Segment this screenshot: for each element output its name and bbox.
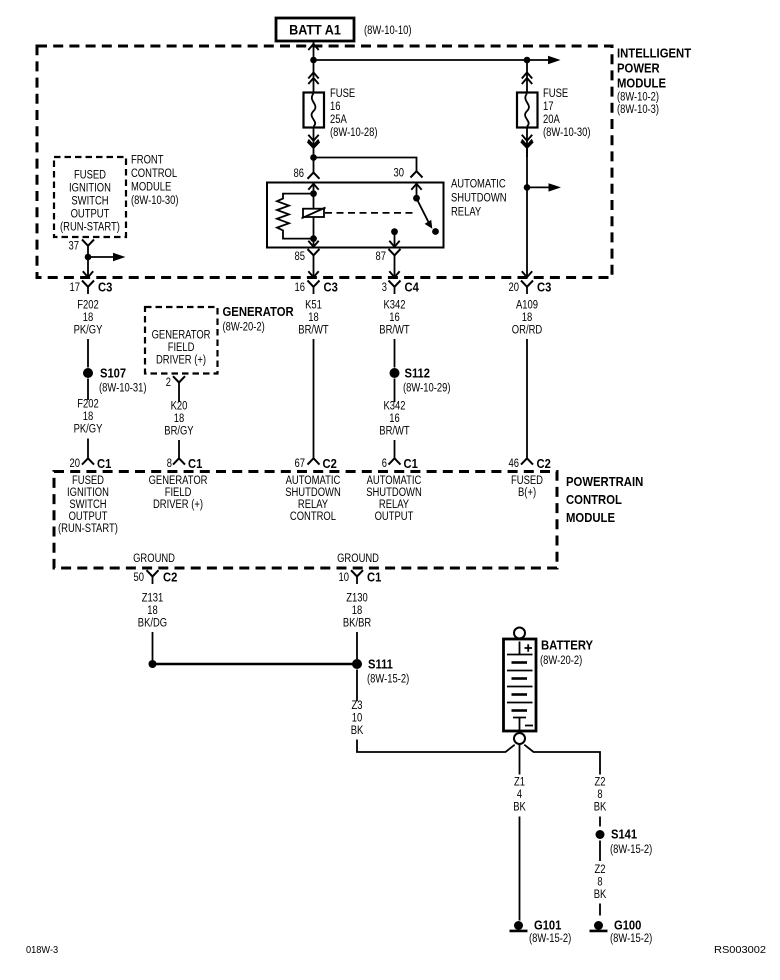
svg-text:20A: 20A xyxy=(543,114,560,126)
wire pin 37 down xyxy=(83,257,93,277)
ground G100 xyxy=(590,918,653,946)
battery feed BATT A1 box xyxy=(276,18,354,41)
connector C1 pin 20 xyxy=(70,451,112,471)
generator pin 2 xyxy=(166,376,185,402)
svg-text:17: 17 xyxy=(543,101,554,113)
wire label F202 lower xyxy=(74,399,103,436)
svg-text:BATT A1: BATT A1 xyxy=(289,22,341,38)
svg-text:86: 86 xyxy=(294,168,305,180)
svg-text:8: 8 xyxy=(597,789,602,801)
svg-text:18: 18 xyxy=(352,605,363,617)
svg-text:Z2: Z2 xyxy=(595,777,606,789)
svg-text:F202: F202 xyxy=(77,300,99,312)
wire Z2 to S141 xyxy=(599,817,601,827)
wire Z3 to battery xyxy=(357,740,515,753)
svg-text:4: 4 xyxy=(517,789,523,801)
pcm label fused b+ xyxy=(511,475,543,499)
wire battery negative to Z1 Z2 xyxy=(520,744,601,775)
svg-text:C1: C1 xyxy=(367,570,381,585)
svg-text:RS003002: RS003002 xyxy=(714,944,766,956)
svg-text:(8W-10-30): (8W-10-30) xyxy=(131,195,179,207)
svg-text:PK/GY: PK/GY xyxy=(74,325,103,337)
wire label K342 lower xyxy=(379,401,409,438)
wire Z2 to G100 xyxy=(599,904,601,916)
svg-text:SHUTDOWN: SHUTDOWN xyxy=(285,487,341,499)
svg-text:SHUTDOWN: SHUTDOWN xyxy=(451,193,507,205)
svg-text:85: 85 xyxy=(295,251,306,263)
fuse F17 xyxy=(517,60,538,128)
battery BT1 xyxy=(504,628,537,745)
pcm label generator field driver xyxy=(149,475,208,511)
svg-text:C2: C2 xyxy=(163,570,177,585)
svg-text:GENERATOR: GENERATOR xyxy=(152,330,211,342)
connector C2 pin 67 xyxy=(295,451,337,471)
svg-text:67: 67 xyxy=(295,458,306,470)
svg-text:S141: S141 xyxy=(611,827,637,842)
connector C3 pin 16 xyxy=(295,280,338,295)
svg-text:CONTROL: CONTROL xyxy=(131,168,178,180)
relay pin 87 contact xyxy=(389,228,399,247)
svg-text:CONTROL: CONTROL xyxy=(290,511,337,523)
wire BATT A1 to node A1 xyxy=(308,42,318,61)
relay pin 85 xyxy=(295,239,320,278)
svg-text:GENERATOR: GENERATOR xyxy=(149,475,208,487)
intelligent power module title xyxy=(617,46,691,117)
connector C1 pin 10 xyxy=(339,570,382,585)
front control module box xyxy=(54,157,126,237)
splice S107 xyxy=(83,366,147,395)
svg-text:BK: BK xyxy=(594,889,607,901)
relay coil feed xyxy=(310,184,317,242)
svg-text:G100: G100 xyxy=(614,918,641,933)
svg-text:BK: BK xyxy=(351,725,364,737)
svg-text:C1: C1 xyxy=(188,456,202,471)
wire label Z130 xyxy=(343,593,371,630)
front control module inner label xyxy=(60,170,120,234)
svg-text:AUTOMATIC: AUTOMATIC xyxy=(451,179,506,191)
svg-text:16: 16 xyxy=(389,312,400,324)
svg-text:10: 10 xyxy=(352,713,363,725)
svg-text:37: 37 xyxy=(69,241,80,253)
svg-text:Z3: Z3 xyxy=(352,700,363,712)
connector C3 pin 20 xyxy=(509,280,552,295)
relay switch xyxy=(413,184,439,235)
svg-text:OUTPUT: OUTPUT xyxy=(375,511,414,523)
svg-text:SWITCH: SWITCH xyxy=(71,196,108,208)
pcm label fused ignition switch output xyxy=(58,475,118,535)
svg-text:18: 18 xyxy=(522,312,533,324)
front control module title xyxy=(131,155,179,208)
automatic shutdown relay box xyxy=(267,183,444,248)
connector C2 pin 50 xyxy=(134,570,178,585)
svg-text:(8W-15-2): (8W-15-2) xyxy=(367,674,409,686)
svg-text:S111: S111 xyxy=(368,657,393,672)
svg-text:(8W-10-10): (8W-10-10) xyxy=(364,25,412,37)
connector C3 pin 17 xyxy=(70,280,113,295)
svg-text:DRIVER (+): DRIVER (+) xyxy=(153,499,203,511)
svg-text:C1: C1 xyxy=(404,456,418,471)
svg-text:50: 50 xyxy=(134,572,145,584)
svg-text:30: 30 xyxy=(394,168,405,180)
svg-text:BK/DG: BK/DG xyxy=(138,618,167,630)
svg-text:SHUTDOWN: SHUTDOWN xyxy=(366,487,422,499)
svg-text:FUSED: FUSED xyxy=(72,475,104,487)
svg-text:GROUND: GROUND xyxy=(337,553,379,565)
svg-text:16: 16 xyxy=(295,282,306,294)
powertrain control module dashed border xyxy=(54,472,557,569)
svg-text:BATTERY: BATTERY xyxy=(541,638,593,653)
svg-text:8: 8 xyxy=(597,877,602,889)
splice S141 xyxy=(596,827,653,857)
splice S111 xyxy=(352,657,409,686)
fuse F16 label xyxy=(330,88,378,139)
fuse F16 xyxy=(304,60,325,128)
footer drawing number xyxy=(714,944,766,956)
svg-text:(8W-20-2): (8W-20-2) xyxy=(223,322,265,334)
svg-text:RELAY: RELAY xyxy=(451,207,481,219)
fuse F17 label xyxy=(543,88,591,139)
relay coil xyxy=(302,208,326,219)
wire Z3 upper xyxy=(356,670,358,702)
svg-text:FUSED: FUSED xyxy=(511,475,543,487)
svg-text:8: 8 xyxy=(167,458,172,470)
svg-text:B(+): B(+) xyxy=(518,487,536,499)
svg-text:20: 20 xyxy=(509,282,520,294)
svg-text:C1: C1 xyxy=(97,456,111,471)
svg-text:FUSED: FUSED xyxy=(74,170,106,182)
wire label Z131 xyxy=(138,593,167,630)
wire label Z1 xyxy=(513,777,526,814)
node fuse 17 tap xyxy=(524,184,531,191)
wire label Z2 lower xyxy=(594,864,607,901)
svg-text:PK/GY: PK/GY xyxy=(74,424,103,436)
svg-text:BK: BK xyxy=(513,802,526,814)
pcm label automatic shutdown relay output xyxy=(366,475,422,523)
svg-text:GENERATOR: GENERATOR xyxy=(223,304,295,319)
svg-text:S107: S107 xyxy=(100,366,126,381)
svg-text:MODULE: MODULE xyxy=(566,510,615,525)
wire label K342 upper xyxy=(379,300,409,337)
svg-text:46: 46 xyxy=(509,458,520,470)
svg-text:G101: G101 xyxy=(534,918,561,933)
svg-text:3: 3 xyxy=(382,282,387,294)
svg-text:K342: K342 xyxy=(384,300,406,312)
svg-text:018W-3: 018W-3 xyxy=(26,944,58,956)
connector C4 pin 3 xyxy=(382,280,420,295)
svg-text:BK/BR: BK/BR xyxy=(343,618,371,630)
wire Z131 to S111 xyxy=(153,663,358,666)
generator box xyxy=(145,307,218,374)
svg-text:(8W-15-2): (8W-15-2) xyxy=(529,933,571,945)
battery label xyxy=(540,638,593,668)
svg-text:(8W-10-31): (8W-10-31) xyxy=(99,383,147,395)
wire label Z2 upper xyxy=(594,777,607,814)
svg-text:GROUND: GROUND xyxy=(133,553,175,565)
svg-text:SWITCH: SWITCH xyxy=(69,499,106,511)
svg-text:BR/WT: BR/WT xyxy=(379,325,409,337)
svg-text:Z131: Z131 xyxy=(142,593,164,605)
svg-text:(8W-10-3): (8W-10-3) xyxy=(617,104,659,116)
relay pin 30 xyxy=(394,168,423,190)
svg-text:(8W-20-2): (8W-20-2) xyxy=(540,655,582,667)
svg-text:K51: K51 xyxy=(305,300,322,312)
svg-text:(RUN-START): (RUN-START) xyxy=(60,222,120,234)
svg-text:BR/WT: BR/WT xyxy=(298,325,328,337)
node under BATT A1 xyxy=(310,57,317,64)
svg-text:FUSE: FUSE xyxy=(543,88,568,100)
wire Z130 down xyxy=(356,632,358,659)
svg-text:OUTPUT: OUTPUT xyxy=(71,209,110,221)
svg-text:BR/GY: BR/GY xyxy=(164,426,194,438)
wire K342 lower segment xyxy=(394,379,396,403)
wire fuse F17 down xyxy=(521,128,533,158)
resistor in relay xyxy=(277,194,314,239)
svg-text:A109: A109 xyxy=(516,300,538,312)
svg-text:FIELD: FIELD xyxy=(165,487,192,499)
svg-text:18: 18 xyxy=(174,413,185,425)
pcm label ground left xyxy=(133,553,175,565)
svg-text:18: 18 xyxy=(147,605,158,617)
svg-text:(8W-10-29): (8W-10-29) xyxy=(403,383,451,395)
svg-text:17: 17 xyxy=(70,282,81,294)
svg-text:BR/WT: BR/WT xyxy=(379,426,409,438)
svg-text:Z2: Z2 xyxy=(595,864,606,876)
relay coil dashed link xyxy=(325,212,413,214)
wire K342 to S112 xyxy=(394,339,396,368)
svg-text:(8W-15-2): (8W-15-2) xyxy=(610,844,652,856)
svg-text:AUTOMATIC: AUTOMATIC xyxy=(367,475,422,487)
wire Z1 down xyxy=(519,817,521,921)
generator title xyxy=(223,304,295,334)
svg-text:(8W-10-30): (8W-10-30) xyxy=(543,127,591,139)
svg-text:18: 18 xyxy=(83,411,94,423)
pcm label ground right xyxy=(337,553,379,565)
wire label K20 xyxy=(164,401,194,438)
splice S112 xyxy=(390,366,451,395)
wire bus A1 horizontal xyxy=(314,56,561,64)
pin 37 connector xyxy=(69,240,95,258)
svg-text:S112: S112 xyxy=(405,366,431,381)
svg-text:DRIVER (+): DRIVER (+) xyxy=(156,355,206,367)
node Z131 xyxy=(149,660,157,668)
wire pin 37 arrow right xyxy=(88,253,126,261)
svg-text:POWER: POWER xyxy=(617,61,660,76)
svg-text:C3: C3 xyxy=(98,280,112,295)
svg-text:18: 18 xyxy=(83,312,94,324)
wire label A109 xyxy=(512,300,542,337)
wire label K51 xyxy=(298,300,328,337)
automatic shutdown relay title xyxy=(451,179,507,219)
svg-text:K20: K20 xyxy=(171,401,188,413)
powertrain control module title xyxy=(566,474,643,525)
svg-text:(8W-10-2): (8W-10-2) xyxy=(617,92,659,104)
wire F202 to C1 xyxy=(87,439,89,452)
svg-text:POWERTRAIN: POWERTRAIN xyxy=(566,474,643,489)
reference 8W-10-10 xyxy=(364,25,412,37)
node bus to fuse 17 xyxy=(524,57,531,64)
svg-text:FIELD: FIELD xyxy=(168,342,195,354)
svg-text:FRONT: FRONT xyxy=(131,155,164,167)
ground G101 xyxy=(510,918,572,946)
svg-text:AUTOMATIC: AUTOMATIC xyxy=(286,475,341,487)
svg-text:RELAY: RELAY xyxy=(379,499,409,511)
wire K51 long xyxy=(313,339,315,451)
svg-text:25A: 25A xyxy=(330,114,347,126)
wire A109 inside IPM xyxy=(522,148,532,277)
wire Z2 middle xyxy=(599,841,601,862)
svg-text:BK: BK xyxy=(594,802,607,814)
wire F202 lower segment xyxy=(87,379,89,401)
svg-text:20: 20 xyxy=(70,458,81,470)
svg-text:FUSE: FUSE xyxy=(330,88,355,100)
generator inner label xyxy=(152,330,211,367)
svg-text:(8W-10-28): (8W-10-28) xyxy=(330,127,378,139)
svg-text:OR/RD: OR/RD xyxy=(512,325,542,337)
svg-text:Z130: Z130 xyxy=(346,593,368,605)
wire F202 to S107 xyxy=(87,339,89,368)
svg-text:F202: F202 xyxy=(77,399,99,411)
svg-text:16: 16 xyxy=(330,101,341,113)
node under pin 37 xyxy=(85,254,92,261)
wire K20 to C1 xyxy=(178,440,180,451)
svg-text:C3: C3 xyxy=(324,280,338,295)
svg-text:C3: C3 xyxy=(537,280,551,295)
svg-text:MODULE: MODULE xyxy=(131,182,172,194)
svg-text:87: 87 xyxy=(376,251,387,263)
svg-text:INTELLIGENT: INTELLIGENT xyxy=(617,46,691,61)
svg-text:6: 6 xyxy=(382,458,387,470)
pcm label automatic shutdown relay control xyxy=(285,475,341,523)
svg-text:C4: C4 xyxy=(405,280,420,295)
svg-text:IGNITION: IGNITION xyxy=(69,183,111,195)
connector C2 pin 46 xyxy=(509,451,551,471)
svg-text:C2: C2 xyxy=(537,456,551,471)
svg-text:16: 16 xyxy=(389,413,400,425)
svg-text:IGNITION: IGNITION xyxy=(67,487,109,499)
connector C1 pin 6 xyxy=(382,451,418,471)
svg-text:(8W-15-2): (8W-15-2) xyxy=(610,933,652,945)
svg-text:OUTPUT: OUTPUT xyxy=(69,511,108,523)
svg-text:18: 18 xyxy=(308,312,319,324)
wire Z131 down xyxy=(152,632,154,660)
node below fuse F16 xyxy=(310,154,317,161)
wire label F202 upper xyxy=(74,300,103,337)
svg-text:K342: K342 xyxy=(384,401,406,413)
connector C1 pin 8 xyxy=(167,451,203,471)
svg-text:CONTROL: CONTROL xyxy=(566,492,622,507)
svg-text:C2: C2 xyxy=(323,456,337,471)
svg-text:MODULE: MODULE xyxy=(617,76,666,91)
wire K342 to C1 xyxy=(394,440,396,451)
relay pin 87 xyxy=(376,249,401,277)
svg-text:RELAY: RELAY xyxy=(298,499,328,511)
footer sheet number xyxy=(26,944,58,956)
intelligent power module dashed border xyxy=(37,46,612,278)
wire label Z3 xyxy=(351,700,364,737)
svg-text:2: 2 xyxy=(166,377,171,389)
wire node to relay pin 30 xyxy=(314,158,417,172)
svg-text:(RUN-START): (RUN-START) xyxy=(58,523,118,535)
wire fuse F16 to node 86 xyxy=(308,128,320,158)
wire A109 long xyxy=(526,339,528,451)
svg-text:Z1: Z1 xyxy=(514,777,525,789)
svg-text:10: 10 xyxy=(339,572,350,584)
relay pin 86 xyxy=(294,158,320,190)
wire tap arrow right xyxy=(527,183,561,191)
